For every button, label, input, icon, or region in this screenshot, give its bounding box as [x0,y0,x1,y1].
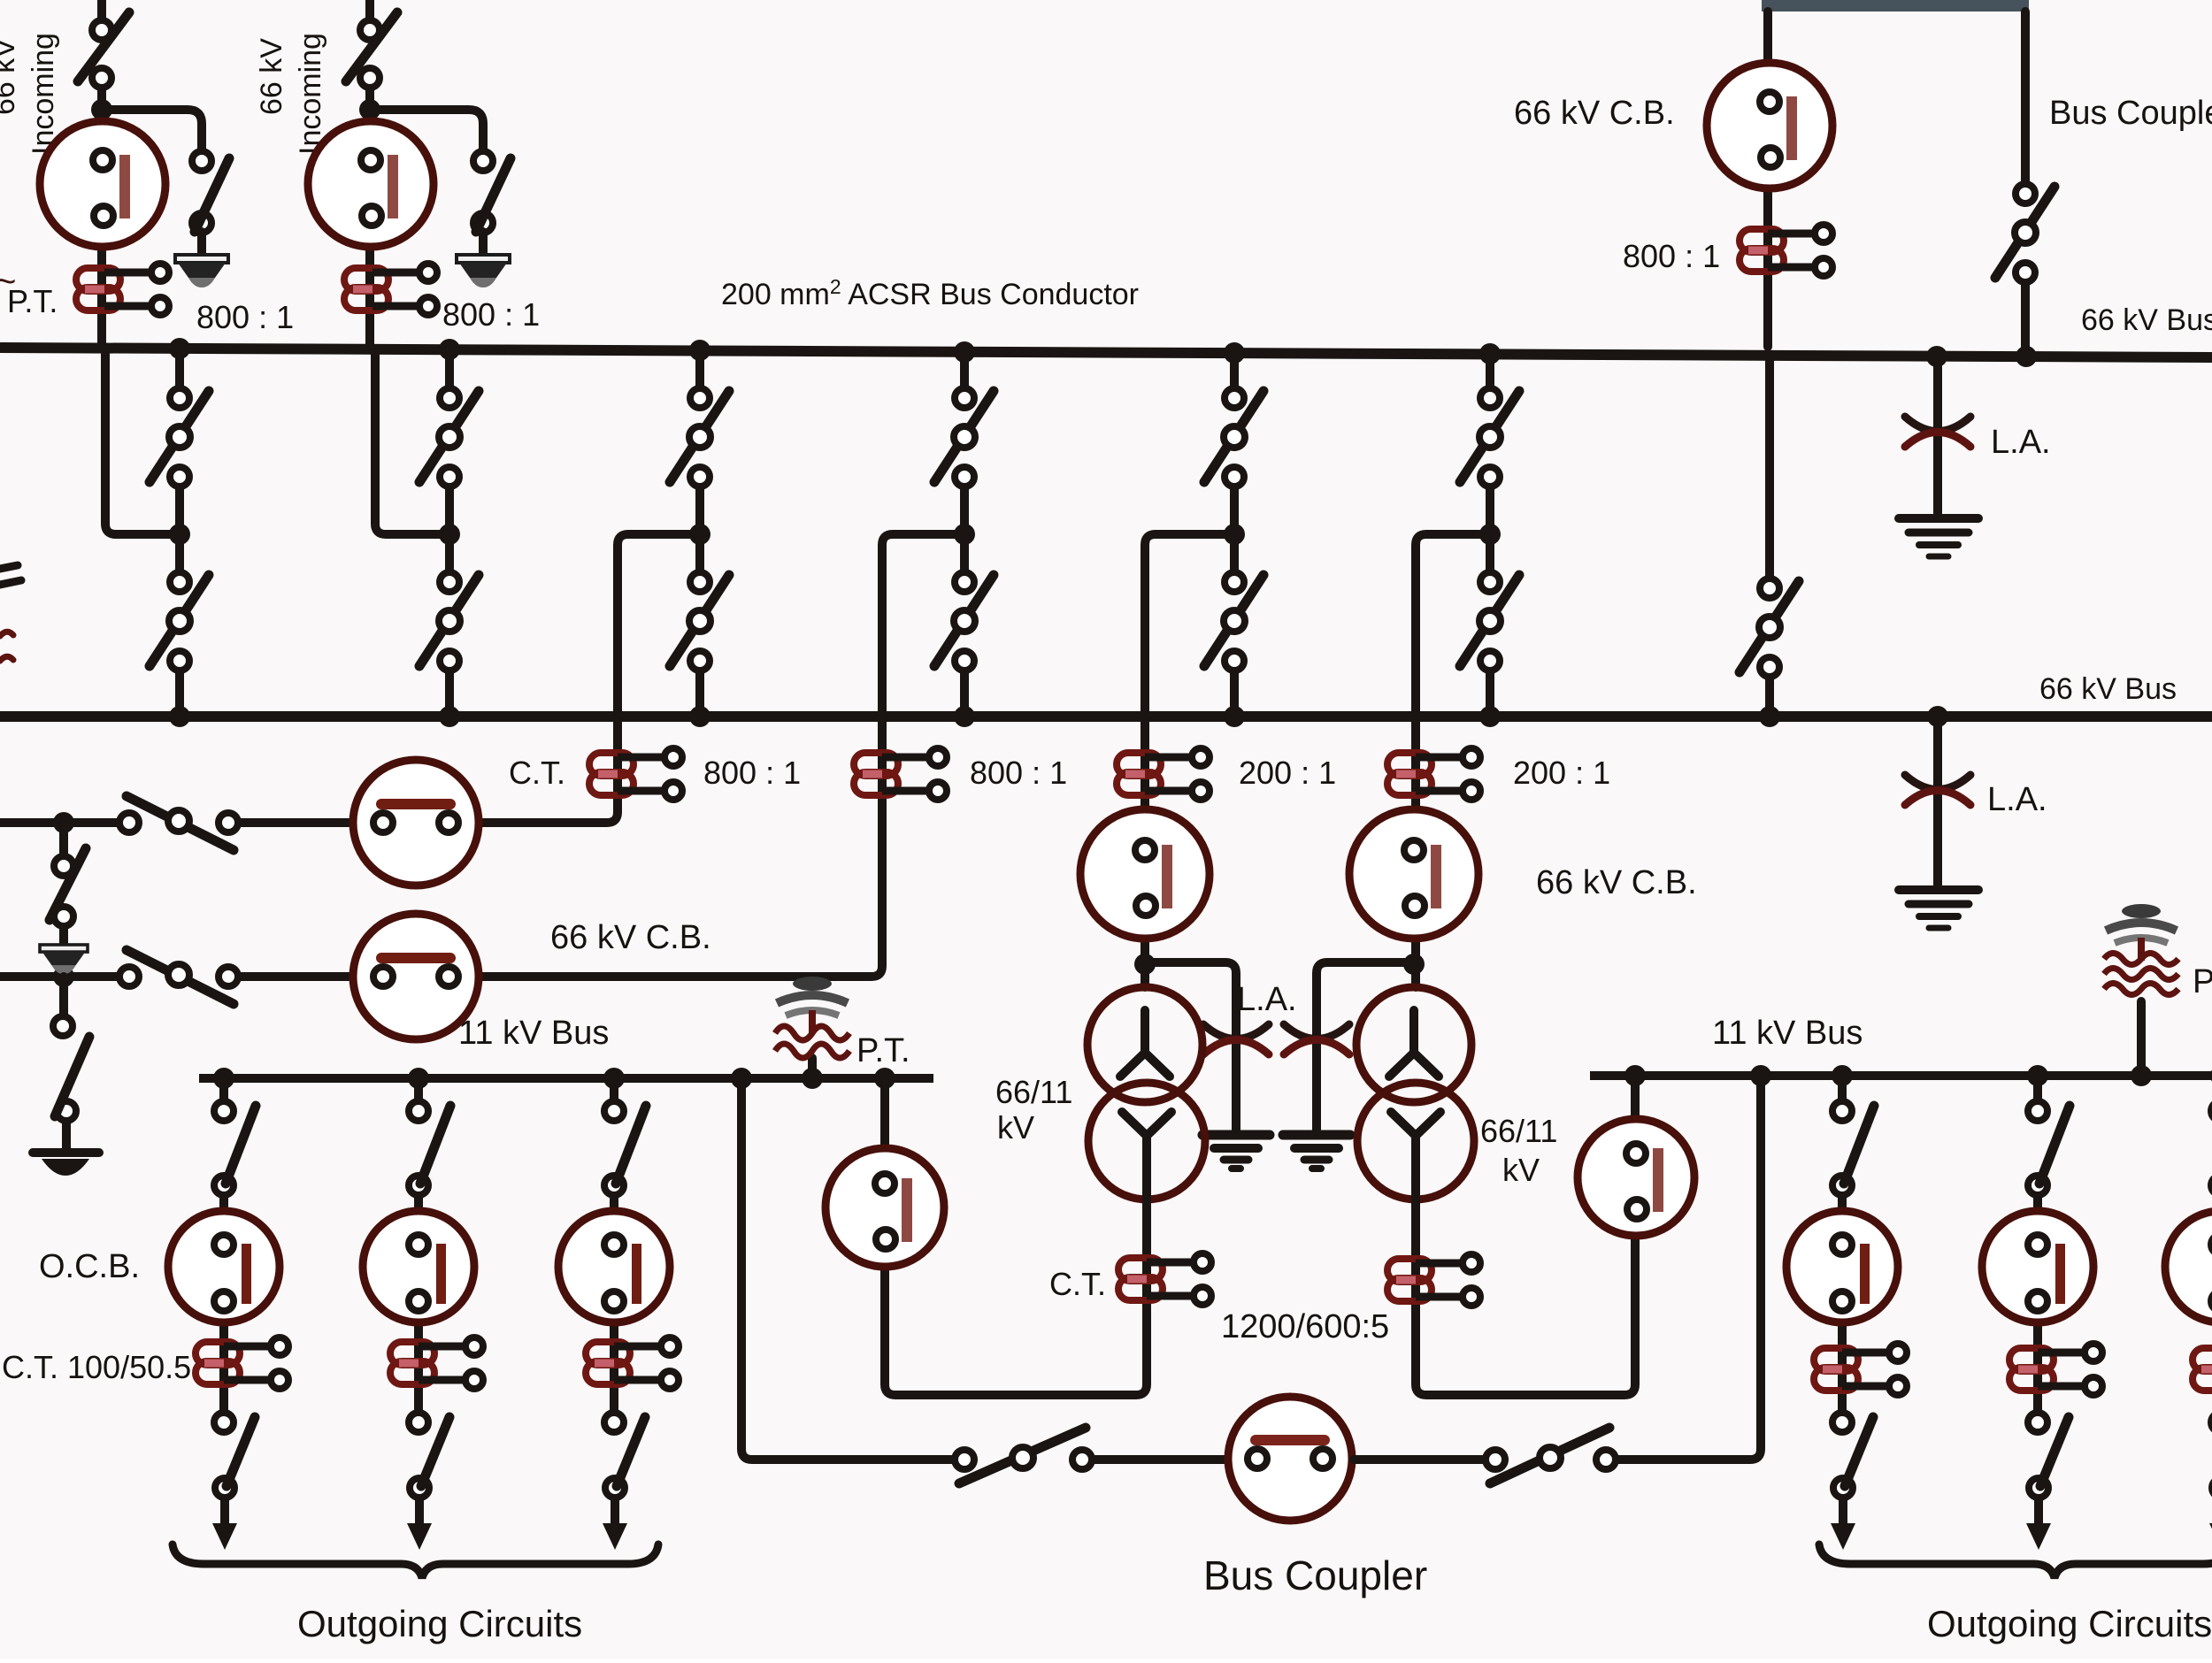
wire outgoing feeder 3 through OCB and CT [610,1221,618,1412]
wire left column below line 2 [59,977,68,1016]
junction outgoing feeder 4 on bus [1832,1065,1853,1086]
isolator bay 4 upper (bus 1 side) [934,388,994,487]
isolator feeder line 2 [119,950,238,1004]
isolator bus coupler to bus 2 [1740,579,1799,677]
CT 1200/600:5 transformer 2 [1387,1254,1480,1306]
wire bay 6 to mid junction [1486,487,1494,527]
oil circuit breaker outgoing feeder 5 [1982,1211,2093,1322]
svg-text:200 mm2 ACSR Bus Conductor: 200 mm2 ACSR Bus Conductor [721,275,1139,311]
CT 200:1 bay 5 [1117,748,1210,800]
earthing switch line 1 [192,151,229,233]
lightning arrester transformer 1 [1203,1024,1269,1054]
junction bay 5 on bus 1 [1224,342,1245,364]
wire feeder line 2 to left edge [0,972,119,981]
circuit breaker 11 kV bus coupler [1228,1397,1352,1521]
wire bay 2 mid to lower isolator [445,541,454,571]
isolator outgoing feeder 2 upper [409,1101,450,1195]
svg-text:66/11: 66/11 [995,1074,1072,1110]
junction feeder line 1 left column [53,812,74,833]
wire incoming line 1 to junction [97,88,106,110]
junction bay 5 on bus 2 [1224,706,1245,727]
wire bay 1 bus1 to isolator [175,349,184,387]
outgoing feeder 4 arrow [1831,1498,1855,1550]
svg-text:1200/600:5: 1200/600:5 [1221,1308,1389,1345]
svg-text:800 : 1: 800 : 1 [703,755,801,791]
wire bay 5 bus1 to isolator [1230,353,1239,387]
isolator incoming line 1 [78,12,129,88]
wire outgoing feeder 5 isolator to OCB [2033,1196,2042,1221]
wire 11 kV coupler CB to right isolator [1354,1455,1485,1464]
wire bay 5 jumper down through CT and CB [1145,534,1234,987]
wire LA branch transformer 1 [1145,962,1236,1130]
outgoing feeder 6 arrow [2209,1498,2212,1550]
isolator incoming line 2 [346,12,397,88]
CT outgoing feeder 3 [586,1337,679,1389]
wire bus coupler right column [2021,11,2030,183]
wire bay 1 to mid junction [175,487,184,527]
CT outgoing feeder 6 [2193,1344,2212,1395]
svg-text:C.T. 100/50.5: C.T. 100/50.5 [2,1349,191,1385]
wire 11 kV coupler left to CB [1093,1455,1226,1464]
isolator bay 4 lower (bus 2 side) [934,572,994,671]
isolator outgoing feeder 3 lower [604,1413,645,1498]
66 kV bus 2 [0,711,2212,722]
wire earthing branch line 2 [370,110,483,150]
circuit breaker 11 kV transformer 1 [826,1148,944,1267]
svg-text:800 : 1: 800 : 1 [442,296,540,333]
svg-text:O.C.B.: O.C.B. [39,1248,140,1285]
transformer 2 primary winding [1356,987,1471,1102]
svg-text:L.A.: L.A. [1991,424,2051,461]
11 kV bus left [199,1074,933,1083]
mid junction bay 3 [689,524,710,545]
junction LA on bus 1 [1926,346,1947,367]
isolator outgoing feeder 5 upper [2028,1101,2070,1195]
mid junction bay 6 [1479,524,1501,545]
wire bay 6 jumper down through CT and CB [1416,534,1490,987]
junction outgoing feeder 6 on bus [2210,1065,2212,1086]
junction incoming line 1 [91,99,112,120]
junction PT on 11 kV bus right [2131,1065,2152,1086]
wire outgoing feeder 5 bus to isolator [2033,1076,2042,1100]
junction bay 6 on bus 1 [1479,343,1501,364]
wire bay 4 to mid junction [960,487,969,527]
earth LA bus 2 [1899,890,1978,928]
svg-text:Incoming: Incoming [27,33,60,155]
CT 800:1 bay 4 feeder [854,748,947,800]
wire bay 6 bus1 to isolator [1486,354,1494,387]
wire earthing branch line 1 [102,110,202,150]
isolator bay 2 upper (bus 1 side) [419,388,479,487]
wire transformer 1 secondary to 11 kV CB [885,1078,1147,1395]
isolator 11 kV coupler left [955,1428,1092,1483]
junction LA on bus 2 [1927,706,1948,727]
junction coupler riser on 11 kV bus right [1750,1065,1771,1086]
isolator bay 3 lower (bus 2 side) [670,572,729,671]
wire bay 4 bus1 to isolator [960,352,969,387]
wire bay 3 jumper down to feeder line 1 [239,534,700,823]
junction bus coupler on bus 1 [2016,346,2037,367]
wire LA bus 2 [1933,717,1942,885]
wire earthing switch to earth 2 [479,232,488,255]
wire PT right to bus [2137,1001,2146,1076]
svg-text:66/11: 66/11 [1480,1113,1557,1149]
wire incoming line 1 entry [97,0,106,19]
wire transformer 2 secondary to 11 kV CB [1416,1076,1635,1395]
fragment marks left edge [0,565,21,661]
wire 11 kV coupler right riser [1617,1076,1761,1460]
circuit breaker 66 kV incoming line 2 [308,121,434,247]
isolator outgoing feeder 5 lower [2028,1413,2069,1498]
svg-text:kV: kV [1502,1152,1540,1188]
svg-text:11 kV Bus: 11 kV Bus [1712,1015,1863,1052]
earth transformer 1 LA [1202,1135,1270,1169]
circuit breaker 66 kV transformer 2 [1349,809,1479,939]
CT 200:1 bay 6 [1387,748,1480,800]
svg-text:800 : 1: 800 : 1 [196,299,294,335]
circuit breaker 66 kV feeder line 2 [353,914,479,1039]
wire outgoing feeder 1 isolator to OCB [219,1196,228,1221]
wire feeder 1 jumper below bus to bay 1 junction [105,353,180,534]
transformer 1 secondary winding [1088,1083,1205,1199]
isolator outgoing feeder 6 lower [2211,1413,2212,1498]
svg-text:200 : 1: 200 : 1 [1239,755,1336,791]
junction transformer 1 HV [1134,954,1156,975]
svg-text:P.T.: P.T. [856,1032,910,1069]
CT 800:1 incoming line 2 [344,264,437,315]
wire feeder 2 jumper below bus to bay 2 junction [375,353,449,534]
outgoing feeder 1 arrow [212,1498,237,1550]
circuit breaker 66 kV feeder line 1 [353,760,479,885]
junction bus coupler on bus 2 [1759,706,1780,727]
outgoing feeder 5 arrow [2026,1498,2051,1550]
wire bay 4 mid to lower isolator [960,541,969,571]
CT 800:1 incoming line 1 [76,264,169,315]
wire outgoing feeder 1 bus to isolator [219,1078,228,1100]
svg-text:Outgoing Circuits: Outgoing Circuits [1927,1603,2212,1644]
wire bay 3 to bus 2 [695,671,704,717]
66 kV bus 1 [0,348,2212,357]
circuit breaker 66 kV incoming line 1 [40,121,165,247]
wire bay 3 bus1 to isolator [695,350,704,387]
wire incoming 2 through CB/CT to bus crossing [365,110,374,346]
svg-text:66 kV C.B.: 66 kV C.B. [1536,864,1697,901]
junction bay 3 on bus 1 [689,340,710,361]
CT 1200/600:5 transformer 1 [1118,1253,1211,1305]
circuit breaker 66 kV transformer 1 [1080,809,1210,939]
junction bay 3 on bus 2 [689,706,710,727]
junction outgoing feeder 5 on bus [2027,1065,2048,1086]
wire outgoing feeder 4 isolator to OCB [1838,1196,1847,1221]
brace outgoing circuits left [173,1544,658,1578]
wire bus coupler isolator to bus 2 [1765,678,1774,717]
mid junction bay 5 [1224,524,1245,545]
junction bay 2 on bus 1 [439,339,460,360]
junction bay 6 on bus 2 [1479,706,1501,727]
svg-text:L.A.: L.A. [1237,981,1297,1018]
wire bus coupler below bus 1 [1765,358,1774,578]
wire PT left to bus [808,1058,817,1078]
isolator bay 2 lower (bus 2 side) [419,572,479,671]
wire earthing switch to earth 1 [197,232,206,255]
svg-text:66 kV C.B.: 66 kV C.B. [550,919,711,956]
wire bay 3 to mid junction [695,487,704,527]
earth funnel line 2 [457,255,510,287]
svg-text:11 kV Bus: 11 kV Bus [458,1015,609,1052]
svg-text:C.T.: C.T. [1049,1266,1106,1302]
junction feeder line 2 left column [53,966,74,987]
wire LA branch transformer 2 [1317,962,1414,1130]
wire outgoing feeder 2 isolator to OCB [414,1196,423,1221]
brace outgoing circuits right [1819,1544,2212,1578]
wire bay 2 bus1 to isolator [445,349,454,387]
wire outgoing feeder 2 bus to isolator [414,1078,423,1100]
isolator outgoing feeder 2 lower [409,1413,449,1498]
svg-text:Bus Coupler: Bus Coupler [1203,1552,1427,1598]
isolator outgoing feeder 4 lower [1832,1413,1873,1498]
wire outgoing feeder 4 through OCB and CT [1838,1221,1847,1412]
CT 800:1 bus coupler [1740,225,1832,276]
wire bay 5 to mid junction [1230,487,1239,527]
oil circuit breaker outgoing feeder 2 [363,1211,474,1322]
svg-text:Bus Coupler: Bus Coupler [2049,95,2212,132]
wire outgoing feeder 3 isolator to OCB [610,1196,618,1221]
isolator outgoing feeder 4 upper [1832,1101,1874,1195]
wire bay 6 mid to lower isolator [1486,541,1494,571]
potential transformer 11 kV left [775,977,849,1058]
junction bay 1 on bus 1 [169,338,190,359]
isolator feeder line 1 [119,796,238,850]
earth funnel line 1 [175,255,228,287]
earth transformer 2 LA [1283,1135,1350,1169]
wire bay 4 jumper down to feeder line 2 [239,534,964,977]
junction outgoing feeder 1 on bus [213,1068,234,1089]
potential transformer 11 kV right [2104,904,2178,995]
svg-text:800 : 1: 800 : 1 [970,755,1067,791]
junction outgoing feeder 3 on bus [603,1068,625,1089]
CT 800:1 bay 3 feeder [589,748,682,800]
isolator bay 6 upper (bus 1 side) [1460,388,1519,487]
transformer 1 primary winding [1087,987,1202,1102]
earth funnel left column [40,945,88,974]
circuit breaker 11 kV transformer 2 [1578,1119,1694,1236]
junction bay 2 on bus 2 [439,706,460,727]
circuit breaker 66 kV bus coupler [1707,63,1832,188]
svg-text:C.T.: C.T. [509,755,565,791]
isolator bay 3 upper (bus 1 side) [670,388,729,487]
isolator outgoing feeder 1 lower [214,1413,255,1498]
svg-text:Outgoing Circuits: Outgoing Circuits [297,1603,582,1644]
wire incoming line 2 to junction [365,88,374,110]
wire left column to earth cup [62,1122,71,1148]
mid junction bay 1 [169,524,190,545]
wire feeder line 1 to left edge [0,818,119,827]
svg-text:66 kV Bus: 66 kV Bus [2081,303,2212,337]
junction bay 1 on bus 2 [169,706,190,727]
CT outgoing feeder 1 [196,1337,288,1389]
wire bay 1 to bus 2 [175,671,184,717]
CT outgoing feeder 4 [1814,1344,1907,1395]
junction outgoing feeder 2 on bus [408,1068,429,1089]
isolator outgoing feeder 6 upper [2211,1101,2212,1195]
wire bay 4 to bus 2 [960,671,969,717]
wire bay 5 mid to lower isolator [1230,541,1239,571]
wire LA bus 1 [1933,356,1942,513]
junction transformer 2 on 11 kV bus [1624,1065,1646,1086]
svg-text:L.A.: L.A. [1987,781,2047,818]
wire bus coupler CB column [1763,11,1772,347]
wire outgoing feeder 3 bus to isolator [610,1078,618,1100]
isolator bay 1 lower (bus 2 side) [150,572,209,671]
isolator bay 5 lower (bus 2 side) [1204,572,1263,671]
junction bay 4 on bus 2 [954,706,975,727]
earthing switch left column lower [53,1016,89,1121]
isolator left column upper [50,848,86,926]
earth cup left column [33,1153,99,1176]
junction PT on 11 kV bus left [802,1068,823,1089]
junction transformer 1 on 11 kV bus [874,1068,895,1089]
earthing switch line 2 [473,151,511,233]
wire bay 5 to bus 2 [1230,671,1239,717]
junction incoming line 2 [359,99,380,120]
svg-text:200 : 1: 200 : 1 [1513,755,1610,791]
svg-text:P.T.: P.T. [2193,963,2212,1000]
svg-text:66 kV Bus: 66 kV Bus [2039,672,2177,706]
bus coupler top bar [1762,0,2029,11]
wire left column to funnel [59,927,68,945]
isolator outgoing feeder 1 upper [214,1101,256,1195]
wire bay 2 to mid junction [445,487,454,527]
mid junction bay 2 [439,524,460,545]
svg-text:66 kV: 66 kV [255,38,288,115]
oil circuit breaker outgoing feeder 1 [168,1211,280,1322]
isolator outgoing feeder 3 upper [604,1101,646,1195]
transformer 2 secondary winding [1357,1083,1474,1199]
wire left column line1 down [59,823,68,855]
earth LA bus 1 [1899,518,1978,556]
wire bus coupler right column to bus 1 [2021,283,2030,356]
wire incoming 1 through CB/CT to bus crossing [97,110,106,346]
oil circuit breaker outgoing feeder 3 [558,1211,670,1322]
wire outgoing feeder 1 through OCB and CT [219,1221,228,1412]
wire outgoing feeder 5 through OCB and CT [2033,1221,2042,1412]
CT outgoing feeder 5 [2009,1344,2102,1395]
isolator bay 5 upper (bus 1 side) [1204,388,1263,487]
wire bay 1 mid to lower isolator [175,541,184,571]
oil circuit breaker outgoing feeder 4 [1786,1211,1898,1322]
11 kV bus right [1590,1071,2212,1080]
CT outgoing feeder 2 [390,1337,483,1389]
wire outgoing feeder 2 through OCB and CT [414,1221,423,1412]
svg-text:66 kV: 66 kV [0,38,21,115]
svg-text:~: ~ [0,260,17,302]
wire incoming line 2 entry [365,0,374,19]
wire bay 3 mid to lower isolator [695,541,704,571]
isolator bus coupler to bus 1 [1995,184,2055,282]
junction coupler riser on 11 kV bus left [731,1068,752,1089]
junction transformer 2 HV [1403,954,1425,975]
lightning arrester transformer 2 [1284,1024,1349,1054]
isolator 11 kV coupler right [1486,1428,1616,1483]
outgoing feeder 2 arrow [407,1498,432,1550]
outgoing feeder 3 arrow [603,1498,627,1550]
wire outgoing feeder 4 bus to isolator [1838,1076,1847,1100]
lightning arrester bus 1 [1905,417,1970,447]
oil circuit breaker outgoing feeder 6 [2165,1211,2212,1322]
svg-text:Incoming: Incoming [294,33,327,155]
svg-text:800 : 1: 800 : 1 [1623,238,1720,274]
mid junction bay 4 [954,524,975,545]
svg-text:66 kV C.B.: 66 kV C.B. [1514,95,1675,132]
wire bay 6 to bus 2 [1486,671,1494,717]
isolator bay 6 lower (bus 2 side) [1460,572,1519,671]
lightning arrester bus 2 [1905,775,1970,805]
wire 11 kV coupler left riser [741,1078,954,1460]
isolator bay 1 upper (bus 1 side) [150,388,209,487]
junction bay 4 on bus 1 [954,341,975,363]
wire bay 2 to bus 2 [445,671,454,717]
svg-text:kV: kV [997,1109,1034,1146]
